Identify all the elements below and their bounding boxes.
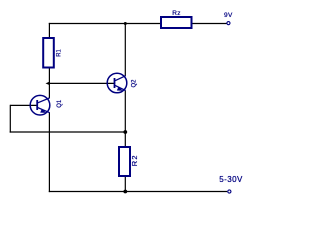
svg-text:Q2: Q2 xyxy=(132,79,138,88)
svg-text:Q1: Q1 xyxy=(57,99,63,108)
svg-text:5-30V: 5-30V xyxy=(219,175,243,184)
svg-text:R1: R1 xyxy=(56,48,62,56)
svg-text:R2: R2 xyxy=(130,154,139,166)
svg-text:9V: 9V xyxy=(224,12,233,19)
svg-text:Rz: Rz xyxy=(172,10,180,17)
